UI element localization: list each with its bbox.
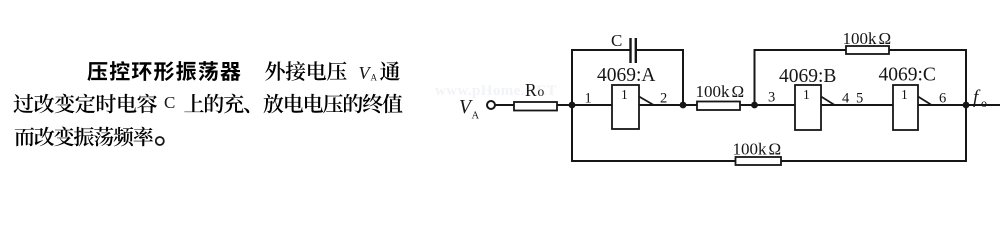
inverter A output wedge (639, 97, 653, 105)
svg-text:4: 4 (842, 91, 850, 107)
node 3 junction (751, 102, 758, 109)
inverter B output wedge (821, 97, 834, 105)
svg-text:1: 1 (803, 87, 810, 102)
svg-text:100k: 100k (843, 29, 878, 48)
svg-text:4069:A: 4069:A (597, 65, 656, 86)
svg-text:1: 1 (901, 87, 908, 102)
svg-text:Ω: Ω (732, 82, 745, 101)
inverter C output wedge (918, 97, 931, 105)
wire R1 to node 3 (740, 104, 795, 106)
wire C output to fo (918, 104, 1000, 106)
svg-text:100k: 100k (733, 140, 768, 159)
svg-text:5: 5 (856, 91, 863, 107)
resistor R3 100k bottom feedback (733, 140, 782, 166)
resistor R0 (514, 80, 557, 111)
svg-text:4069:C: 4069:C (879, 65, 936, 86)
node fo output label (973, 87, 987, 110)
resistor R2 100k top feedback (843, 29, 892, 54)
resistor R1 100k between node2 and node3 (696, 82, 745, 110)
wire capacitor loop top left (571, 49, 630, 51)
op-amp U1 inverter 4069:A body (612, 85, 639, 129)
svg-text:Ω: Ω (769, 140, 782, 159)
wire bottom feedback horizontal right (781, 160, 967, 162)
wire top feedback horizontal left (754, 49, 847, 51)
op-amp U2 inverter 4069:B body (795, 85, 821, 130)
node VA input terminal label (459, 97, 480, 122)
svg-text:3: 3 (768, 90, 775, 106)
wire top feedback left vertical (754, 50, 756, 105)
wire A output to node 2 (639, 104, 697, 106)
paragraph text line2 (14, 93, 403, 113)
input terminal circle (487, 101, 495, 109)
svg-text:R: R (525, 80, 537, 100)
wire top feedback right vertical (965, 50, 967, 105)
wire bottom feedback right vertical (965, 105, 967, 161)
node 2 junction (680, 102, 687, 109)
svg-text:4069:B: 4069:B (779, 66, 836, 87)
svg-text:2: 2 (660, 91, 667, 107)
wire B output to C input (821, 104, 893, 106)
svg-text:o: o (538, 84, 545, 99)
capacitor C plates (631, 38, 636, 63)
svg-text:C: C (611, 31, 622, 50)
svg-text:1: 1 (621, 87, 628, 102)
wire R0 to node 1 (557, 104, 612, 106)
wire VA to R0 (495, 104, 514, 106)
wire bottom feedback horizontal left (571, 160, 736, 162)
svg-text:A: A (371, 73, 378, 83)
paragraph text line3 (15, 127, 164, 147)
svg-text:o: o (981, 96, 987, 110)
op-amp U3 inverter 4069:C body (893, 85, 918, 130)
svg-text:Ω: Ω (879, 29, 892, 48)
paragraph text line1 (87, 61, 399, 83)
svg-text:A: A (472, 111, 480, 122)
node fo junction (963, 102, 970, 109)
svg-text:100k: 100k (696, 82, 731, 101)
wire top feedback horizontal right (889, 49, 967, 51)
wire capacitor loop left vertical (682, 50, 684, 105)
wire capacitor loop top right (636, 49, 684, 51)
wire vertical at node 1 (to C loop and bottom feedback) (571, 50, 573, 161)
node 1 junction (569, 102, 576, 109)
svg-text:C: C (164, 93, 175, 112)
svg-text:6: 6 (939, 91, 946, 107)
svg-text:1: 1 (585, 91, 592, 107)
